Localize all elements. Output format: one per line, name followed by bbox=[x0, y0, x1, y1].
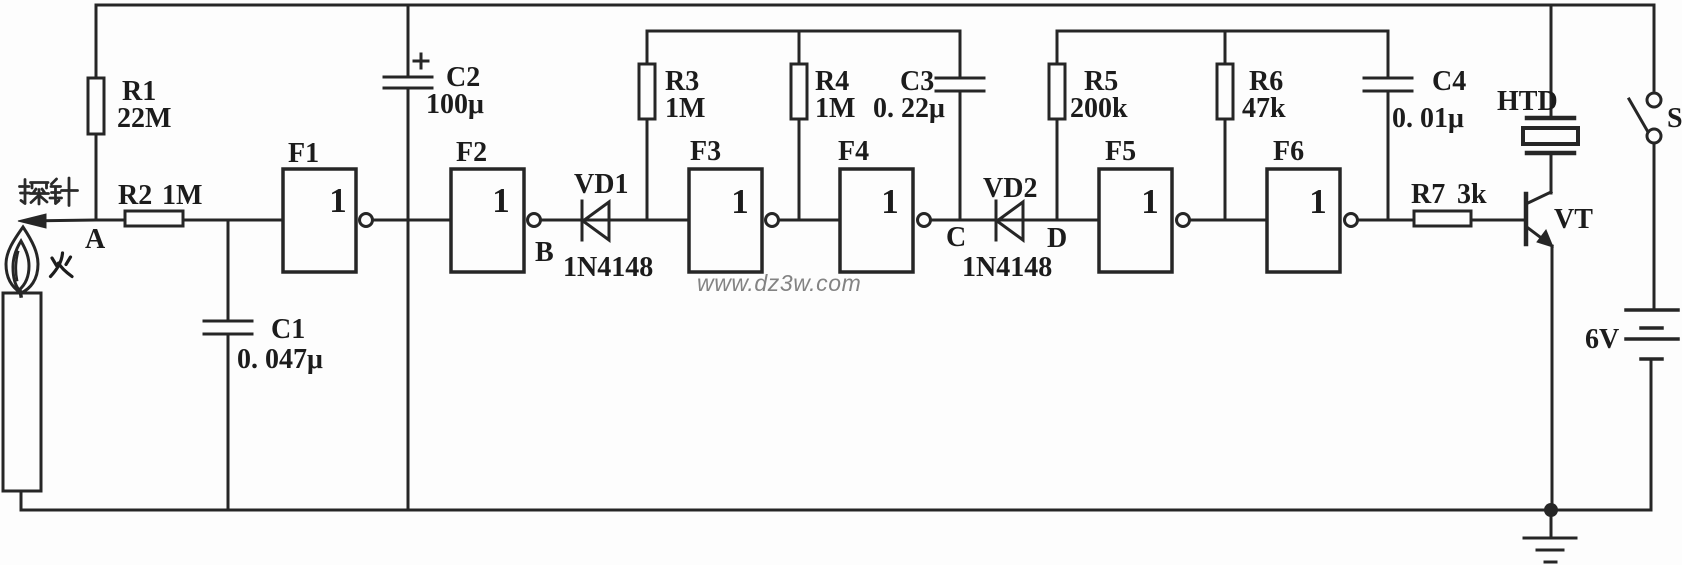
svg-text:F5: F5 bbox=[1105, 136, 1136, 167]
wire HTD to VT collector bbox=[1550, 155, 1553, 193]
switch S lever bbox=[1629, 99, 1648, 132]
svg-text:0. 047μ: 0. 047μ bbox=[237, 344, 323, 375]
diode VD1 triangle bbox=[583, 202, 609, 240]
svg-text:22M: 22M bbox=[117, 103, 171, 134]
capacitor C1 branch wire bbox=[227, 220, 230, 510]
svg-text:F1: F1 bbox=[288, 138, 319, 169]
svg-text:1M: 1M bbox=[162, 180, 202, 211]
wire node B through VD1 to F3 input bbox=[541, 219, 690, 222]
F5 output bubble bbox=[1177, 214, 1190, 227]
svg-text:VT: VT bbox=[1554, 204, 1593, 235]
capacitor C1 plates bbox=[204, 321, 252, 334]
svg-text:A: A bbox=[85, 224, 106, 255]
resistor R6 branch wire bbox=[1224, 31, 1227, 220]
capacitor C3 plates bbox=[936, 78, 984, 91]
wire probe arrow to node A and on to F1 input bbox=[24, 220, 283, 221]
svg-text:1N4148: 1N4148 bbox=[563, 252, 653, 283]
C2 plus sign bbox=[414, 54, 428, 68]
resistor R2 bbox=[125, 211, 183, 226]
candle wick bbox=[20, 290, 21, 296]
svg-text:VD2: VD2 bbox=[983, 173, 1037, 204]
wire F3 out to F4 in bbox=[779, 219, 841, 222]
diode VD1 cathode bar bbox=[581, 201, 584, 240]
capacitor C4 branch wire bbox=[1387, 31, 1390, 220]
svg-text:F4: F4 bbox=[838, 136, 869, 167]
inverter gate F2 bbox=[451, 169, 524, 272]
label 火 fire (drawn strokes) bbox=[51, 253, 73, 277]
F6 output bubble bbox=[1345, 214, 1358, 227]
svg-text:3k: 3k bbox=[1457, 179, 1487, 210]
svg-text:1: 1 bbox=[1141, 182, 1159, 221]
buzzer HTD branch wire bbox=[1550, 5, 1553, 117]
svg-text:1: 1 bbox=[329, 181, 347, 220]
resistor R5 bbox=[1049, 64, 1065, 119]
diode VD2 triangle bbox=[997, 202, 1023, 240]
F1 output bubble bbox=[360, 214, 373, 227]
svg-text:6V: 6V bbox=[1585, 324, 1619, 355]
svg-text:R2: R2 bbox=[118, 180, 152, 211]
F4 output bubble bbox=[918, 214, 931, 227]
feedback rail over F3 F4 bbox=[647, 30, 960, 33]
diode VD2 cathode bar bbox=[995, 201, 998, 240]
svg-text:F2: F2 bbox=[456, 137, 487, 168]
resistor R3 bbox=[639, 64, 655, 119]
svg-text:100μ: 100μ bbox=[426, 89, 484, 120]
svg-text:1M: 1M bbox=[665, 93, 705, 124]
wire top supply rail bbox=[96, 4, 1654, 7]
inverter gate F5 bbox=[1099, 169, 1172, 272]
battery 6V plates bbox=[1626, 310, 1678, 359]
wire battery to ground rail bbox=[1650, 360, 1653, 510]
capacitor C2 branch wire bbox=[407, 5, 410, 510]
junction dot at ground bbox=[1544, 503, 1558, 517]
transistor VT emitter lead bbox=[1528, 228, 1552, 246]
wire bottom ground rail bbox=[21, 509, 1651, 512]
switch S branch wire bbox=[1653, 5, 1656, 90]
resistor R6 bbox=[1217, 64, 1233, 119]
inverter gate F6 bbox=[1267, 169, 1340, 272]
candle body bbox=[3, 293, 41, 491]
wire R1 branch vertical bbox=[95, 5, 98, 220]
svg-text:R7: R7 bbox=[1411, 179, 1445, 210]
svg-text:47k: 47k bbox=[1242, 93, 1286, 124]
svg-text:C4: C4 bbox=[1432, 66, 1466, 97]
svg-text:B: B bbox=[535, 237, 554, 268]
svg-text:1: 1 bbox=[1309, 182, 1327, 221]
buzzer HTD bottom plate bbox=[1527, 151, 1574, 156]
svg-text:1M: 1M bbox=[815, 93, 855, 124]
inverter gate F4 bbox=[840, 169, 913, 272]
svg-text:C: C bbox=[946, 222, 966, 253]
wire F5 out to F6 in bbox=[1190, 219, 1268, 222]
svg-text:200k: 200k bbox=[1070, 93, 1128, 124]
probe arrowhead bbox=[18, 214, 46, 228]
wire node C through VD2 to node D and F5 input bbox=[931, 219, 1100, 222]
wire VT emitter to ground rail bbox=[1551, 246, 1554, 510]
transistor VT emitter arrowhead bbox=[1537, 230, 1553, 247]
svg-text:C1: C1 bbox=[271, 314, 305, 345]
ground symbol bbox=[1524, 510, 1576, 562]
buzzer HTD body bbox=[1523, 128, 1578, 144]
capacitor C3 branch wire bbox=[959, 31, 962, 220]
wire candle to ground rail bbox=[20, 491, 23, 510]
wire F1 out to F2 in bbox=[373, 219, 452, 222]
F2 output bubble bbox=[528, 214, 541, 227]
svg-text:D: D bbox=[1047, 223, 1067, 254]
svg-text:HTD: HTD bbox=[1497, 86, 1558, 117]
svg-text:VD1: VD1 bbox=[574, 169, 628, 200]
svg-text:F6: F6 bbox=[1273, 136, 1304, 167]
wire switch to battery bbox=[1653, 143, 1656, 310]
switch S top contact bbox=[1647, 93, 1661, 107]
svg-text:www.dz3w.com: www.dz3w.com bbox=[697, 270, 861, 296]
resistor R3 branch wire bbox=[646, 31, 649, 220]
svg-text:0. 01μ: 0. 01μ bbox=[1392, 103, 1464, 134]
svg-text:1: 1 bbox=[731, 182, 749, 221]
svg-text:1: 1 bbox=[492, 181, 510, 220]
candle flame outer bbox=[6, 227, 38, 293]
resistor R1 bbox=[88, 78, 104, 134]
inverter gate F1 bbox=[283, 169, 356, 272]
svg-text:S: S bbox=[1667, 103, 1682, 134]
F3 output bubble bbox=[766, 214, 779, 227]
wire F6 out through R7 to VT base bbox=[1358, 219, 1525, 222]
resistor R4 bbox=[791, 64, 807, 119]
svg-text:0. 22μ: 0. 22μ bbox=[873, 93, 945, 124]
buzzer HTD top plate bbox=[1527, 116, 1574, 121]
capacitor C4 plates bbox=[1364, 78, 1412, 91]
label 探针 probe (drawn strokes) bbox=[20, 178, 78, 206]
resistor R5 branch wire bbox=[1056, 31, 1059, 220]
switch S bottom contact bbox=[1647, 129, 1661, 143]
feedback rail over F5 F6 bbox=[1057, 30, 1388, 33]
capacitor C2 plates bbox=[384, 77, 432, 88]
svg-text:F3: F3 bbox=[690, 136, 721, 167]
transistor VT base bar bbox=[1524, 194, 1529, 244]
svg-text:1: 1 bbox=[881, 182, 899, 221]
candle flame inner bbox=[13, 241, 29, 290]
svg-text:1N4148: 1N4148 bbox=[962, 252, 1052, 283]
candle flame inner detail bbox=[16, 252, 18, 280]
transistor VT collector lead bbox=[1528, 192, 1551, 203]
resistor R4 branch wire bbox=[798, 31, 801, 220]
resistor R7 bbox=[1414, 211, 1471, 226]
inverter gate F3 bbox=[689, 169, 762, 272]
